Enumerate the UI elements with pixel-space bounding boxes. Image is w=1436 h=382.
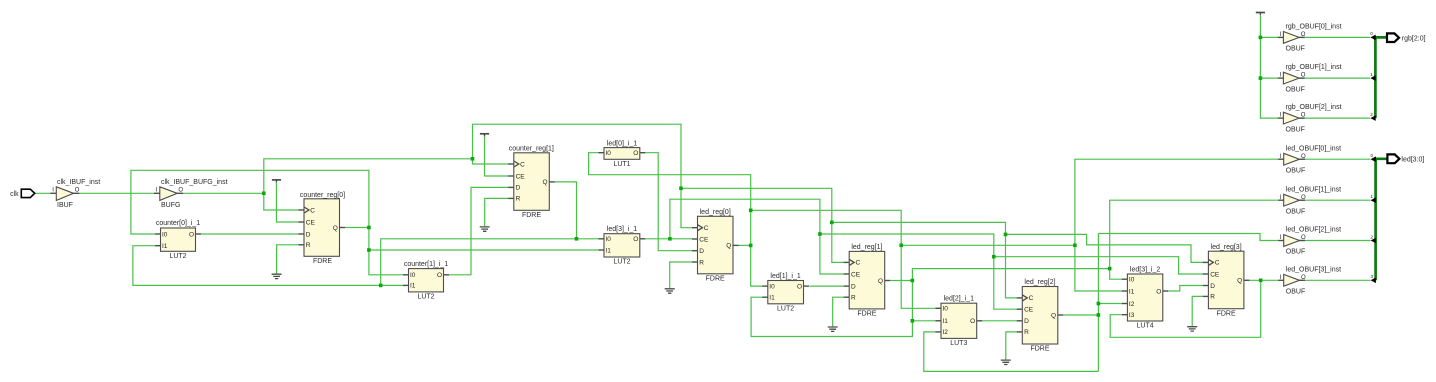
junction ce net a xyxy=(668,237,672,241)
svg-text:CE: CE xyxy=(851,271,861,278)
svg-text:O: O xyxy=(1301,113,1306,119)
svg-text:I0: I0 xyxy=(410,272,416,279)
ground counter_reg[1] xyxy=(480,227,490,231)
wire led_reg[2].Q vertical xyxy=(1097,234,1099,372)
wire counter_reg[0].R to ground xyxy=(277,245,299,274)
svg-text:O: O xyxy=(437,272,442,279)
wire led_reg[2].R to ground xyxy=(1006,332,1018,360)
svg-text:O: O xyxy=(1301,235,1306,241)
svg-text:D: D xyxy=(306,231,311,238)
wire led_OBUF[0].O to bus xyxy=(1299,158,1370,160)
junction counter_reg[1].Q a xyxy=(575,237,579,241)
wire led_OBUF[3].O to bus xyxy=(1299,279,1370,281)
svg-text:LUT2: LUT2 xyxy=(613,259,630,266)
junction clock x831 xyxy=(830,221,834,225)
wire counter_reg[0].Q to led[3]_i_1.I1 xyxy=(369,249,599,251)
wire IBUF.O to BUFG.I xyxy=(79,192,155,194)
flop counter_reg[0] FDRE xyxy=(299,192,346,265)
wire led[3]_i_1.O to led_reg[0].CE xyxy=(645,238,692,240)
svg-text:CE: CE xyxy=(699,236,709,243)
svg-text:D: D xyxy=(516,185,521,192)
wire clock to led_reg[2].C xyxy=(1006,234,1018,298)
wire clock to led_reg[1].C xyxy=(832,222,844,262)
bus tap rgb1 xyxy=(1370,75,1375,81)
svg-text:OBUF: OBUF xyxy=(1286,289,1305,296)
ground led_reg[2] xyxy=(1001,360,1011,364)
svg-text:counter[1]_i_1: counter[1]_i_1 xyxy=(404,261,448,268)
svg-text:FDRE: FDRE xyxy=(857,311,876,318)
svg-text:O: O xyxy=(1301,73,1306,79)
svg-text:O: O xyxy=(633,236,638,243)
junction led_reg[1].Q a xyxy=(911,279,915,283)
svg-text:rgb_OBUF[0]_inst: rgb_OBUF[0]_inst xyxy=(1286,24,1342,31)
svg-text:led[3:0]: led[3:0] xyxy=(1401,157,1424,164)
lut led[2]_i_1 LUT3 xyxy=(936,296,983,347)
lut led[0]_i_1 LUT1 xyxy=(599,140,646,168)
svg-text:CE: CE xyxy=(516,173,526,180)
buffer rgb_OBUF[2]_inst OBUF xyxy=(1278,104,1342,133)
wire led_OBUF[2].O to bus xyxy=(1299,240,1370,242)
svg-text:C: C xyxy=(1215,260,1220,267)
buffer U-BUFG clk_IBUF_BUFG_inst xyxy=(154,179,228,209)
svg-text:I0: I0 xyxy=(162,231,168,238)
svg-text:D: D xyxy=(1024,318,1029,325)
svg-text:Q: Q xyxy=(726,243,731,250)
flop counter_reg[1] FDRE xyxy=(508,146,555,219)
svg-text:clk_IBUF_BUFG_inst: clk_IBUF_BUFG_inst xyxy=(161,179,228,186)
svg-text:C: C xyxy=(520,161,525,168)
port clk xyxy=(10,189,35,198)
wire counter_reg[1].Q left rail xyxy=(381,239,577,286)
wire counter_reg[1].Q down to y238.8 xyxy=(555,182,577,239)
svg-text:led[3]_i_1: led[3]_i_1 xyxy=(607,226,637,233)
wire clock right to x1005 xyxy=(832,222,1006,234)
bus tap led0 xyxy=(1371,156,1376,162)
bus led[3:0] xyxy=(1376,159,1388,280)
svg-text:counter_reg[1]: counter_reg[1] xyxy=(509,146,554,153)
wire counter_reg[1].R to ground xyxy=(485,198,509,226)
svg-text:FDRE: FDRE xyxy=(522,212,541,219)
svg-text:O: O xyxy=(633,150,638,157)
wire BUFG.O to clock junction xyxy=(183,192,264,194)
wire ce net right to x993 xyxy=(820,234,994,257)
buffer rgb_OBUF[1]_inst OBUF xyxy=(1278,64,1342,93)
svg-text:FDRE: FDRE xyxy=(313,258,332,265)
svg-text:led_OBUF[2]_inst: led_OBUF[2]_inst xyxy=(1286,227,1341,234)
junction vcc rgb1 xyxy=(1259,76,1263,80)
svg-text:FDRE: FDRE xyxy=(706,275,725,282)
svg-text:CE: CE xyxy=(1024,307,1034,314)
wire led_reg[0].Q to led[3]_i_2.I1 xyxy=(1075,245,1123,291)
bus tap rgb2 xyxy=(1370,115,1375,121)
wire counter_reg[0].Q feedback to counter[0]_i_1.I0 xyxy=(131,170,369,234)
svg-text:R: R xyxy=(516,196,521,203)
bus rgb[2:0] xyxy=(1375,37,1386,118)
svg-text:O: O xyxy=(189,231,194,238)
svg-text:I2: I2 xyxy=(943,329,949,336)
junction counter_reg[1].Q b xyxy=(379,284,383,288)
wire counter_reg[0].Q to junction xyxy=(345,227,369,229)
wire led_reg[1].Q to junction xyxy=(890,280,912,282)
svg-text:Q: Q xyxy=(878,278,883,285)
svg-text:LUT3: LUT3 xyxy=(950,340,967,347)
svg-text:led[3]_i_2: led[3]_i_2 xyxy=(1130,266,1160,273)
wire led[1]_i_1.O to led_reg[1].D xyxy=(810,285,845,287)
svg-text:O: O xyxy=(797,283,802,290)
wire led_reg[3].Q to led_OBUF[3].I xyxy=(1249,279,1278,281)
svg-text:OBUF: OBUF xyxy=(1286,126,1305,133)
svg-text:led[2]_i_1: led[2]_i_1 xyxy=(944,296,974,303)
wire counter_reg[0].Q to counter[1]_i_1.I0 xyxy=(369,250,404,275)
svg-text:IBUF: IBUF xyxy=(57,202,73,209)
svg-text:I1: I1 xyxy=(943,318,949,325)
wire led[0]_i_1.O to led_reg[0].D xyxy=(645,153,692,251)
svg-text:O: O xyxy=(1301,195,1306,201)
junction led_reg[0].Q c xyxy=(899,244,903,248)
ground counter_reg[0] xyxy=(272,274,282,278)
junction led_reg[3].Q xyxy=(1259,279,1263,283)
svg-text:C: C xyxy=(310,207,315,214)
svg-text:D: D xyxy=(699,248,704,255)
svg-text:OBUF: OBUF xyxy=(1286,167,1305,174)
junction ce net b xyxy=(818,232,822,236)
junction led_reg[2].Q a xyxy=(1097,302,1101,306)
wire clock up and right to x472 xyxy=(264,159,473,194)
svg-text:Q: Q xyxy=(333,225,338,232)
wire counter[0]_i_1.I1 loop xyxy=(133,246,404,286)
junction led_reg[0].Q a xyxy=(749,244,753,248)
wire vcc rail rgb obufs xyxy=(1260,14,1278,118)
wire led_reg[0].Q to led[1]_i_1.I0 xyxy=(751,245,763,286)
junction clock x472 xyxy=(471,157,475,161)
svg-text:C: C xyxy=(1029,295,1034,302)
junction counter_reg[0].Q b xyxy=(367,248,371,252)
svg-text:OBUF: OBUF xyxy=(1286,208,1305,215)
svg-text:OBUF: OBUF xyxy=(1286,86,1305,93)
wire clock right to x831 down xyxy=(681,188,832,222)
wire led_reg[0].Q to led_OBUF[0].I xyxy=(1075,159,1278,245)
svg-text:R: R xyxy=(851,295,856,302)
wire clk port to IBUF xyxy=(35,192,52,194)
bus tap led1 xyxy=(1371,197,1376,203)
power vcc counter_reg[0] xyxy=(272,180,281,182)
flop led_reg[2] FDRE xyxy=(1017,279,1064,352)
svg-text:led_reg[3]: led_reg[3] xyxy=(1211,244,1242,251)
buffer led_OBUF[2]_inst OBUF xyxy=(1278,227,1341,256)
buffer U-IBUF clk_IBUF_inst xyxy=(51,179,101,209)
svg-text:FDRE: FDRE xyxy=(1217,310,1236,317)
svg-text:O: O xyxy=(1301,32,1306,38)
svg-text:D: D xyxy=(1210,283,1215,290)
svg-text:I0: I0 xyxy=(769,283,775,290)
flop led_reg[0] FDRE xyxy=(692,209,739,282)
svg-text:I0: I0 xyxy=(943,306,949,313)
junction ce net c xyxy=(992,255,996,259)
wire rgb_OBUF[2].O to bus xyxy=(1299,117,1370,119)
wire clock to led_reg[0].C xyxy=(681,188,693,227)
svg-text:clk_IBUF_inst: clk_IBUF_inst xyxy=(57,179,100,186)
svg-text:I1: I1 xyxy=(162,243,168,250)
junction led_reg[1].Q b xyxy=(1108,267,1112,271)
lut counter[1]_i_1 LUT2 xyxy=(403,261,449,301)
wire counter[0]_i_1.O to counter_reg[0].D xyxy=(201,233,299,235)
svg-text:CE: CE xyxy=(306,219,316,226)
wire counter_reg[0].Q down xyxy=(368,228,370,251)
svg-text:R: R xyxy=(1210,294,1215,301)
wire led_reg[3].R to ground xyxy=(1192,296,1203,326)
svg-text:rgb[2:0]: rgb[2:0] xyxy=(1402,35,1426,42)
wire led_reg[0].Q up rail right xyxy=(751,210,902,245)
junction led_reg[0].Q d xyxy=(1073,244,1077,248)
svg-text:D: D xyxy=(851,283,856,290)
wire counter[1]_i_1.O to counter_reg[1].D xyxy=(449,187,509,274)
svg-text:I1: I1 xyxy=(769,295,775,302)
svg-text:I1: I1 xyxy=(606,247,612,254)
wire led_reg[1].Q to led[2]_i_1.I1 xyxy=(912,320,936,322)
svg-text:I0: I0 xyxy=(1129,277,1135,284)
power vcc counter_reg[1] xyxy=(480,134,489,136)
junction clock at BUFG output xyxy=(262,192,266,196)
ground led_reg[3] xyxy=(1187,327,1197,331)
wire clock to led_reg[3].C xyxy=(1006,234,1204,262)
svg-text:led_OBUF[3]_inst: led_OBUF[3]_inst xyxy=(1286,266,1341,273)
svg-text:counter_reg[0]: counter_reg[0] xyxy=(300,192,345,199)
lut led[1]_i_1 LUT2 xyxy=(762,273,809,313)
wire led[3]_i_2.O to led_reg[3].D xyxy=(1168,286,1203,292)
junction led_reg[1].Q c xyxy=(911,319,915,323)
buffer led_OBUF[0]_inst OBUF xyxy=(1278,145,1341,174)
svg-text:Q: Q xyxy=(1237,278,1242,285)
wire counter_reg[1].Q to led[3]_i_1.I0 xyxy=(577,238,599,240)
svg-text:I2: I2 xyxy=(1129,301,1135,308)
svg-text:rgb_OBUF[2]_inst: rgb_OBUF[2]_inst xyxy=(1286,104,1342,111)
svg-text:clk: clk xyxy=(10,191,19,198)
svg-text:R: R xyxy=(699,259,704,266)
wire clock down to counter_reg[0].C xyxy=(264,193,299,210)
wire vcc to rgb_OBUF[1].I xyxy=(1260,77,1278,79)
svg-text:led_reg[2]: led_reg[2] xyxy=(1024,279,1055,286)
svg-text:Q: Q xyxy=(1051,312,1056,319)
wire ce net to led_reg[1].CE xyxy=(820,234,844,274)
power vcc rgb obufs xyxy=(1256,13,1265,15)
ground led_reg[0] xyxy=(665,289,675,293)
wire vcc to counter_reg[1].CE xyxy=(485,136,509,176)
svg-text:I0: I0 xyxy=(606,150,612,157)
wire led_reg[2].Q to junction xyxy=(1063,314,1098,316)
wire led_reg[1].Q to led_OBUF[1].I xyxy=(1110,200,1279,268)
svg-text:OBUF: OBUF xyxy=(1286,46,1305,53)
bus tap led3 xyxy=(1371,278,1376,284)
wire led_reg[1].Q up right rail xyxy=(912,269,1109,281)
wire led_reg[0].Q right to v1075 xyxy=(901,244,1075,246)
junction counter_reg[0].Q a xyxy=(367,226,371,230)
svg-text:BUFG: BUFG xyxy=(161,202,180,209)
wire led_reg[2].Q to led[3]_i_2.I2 xyxy=(1098,303,1122,305)
svg-text:led[1]_i_1: led[1]_i_1 xyxy=(770,273,800,280)
svg-text:I1: I1 xyxy=(1129,288,1135,295)
svg-text:OBUF: OBUF xyxy=(1286,249,1305,256)
junction vcc rgb0 xyxy=(1259,36,1263,40)
svg-text:CE: CE xyxy=(1210,271,1220,278)
junction led_reg[0].Q b xyxy=(749,209,753,213)
wire rgb_OBUF[0].O to bus xyxy=(1299,36,1370,38)
svg-text:led_OBUF[0]_inst: led_OBUF[0]_inst xyxy=(1286,145,1341,152)
wire led_OBUF[1].O to bus xyxy=(1299,199,1370,201)
junction led_reg[2].Q b xyxy=(1097,313,1101,317)
wire ce net up and right xyxy=(670,199,820,239)
svg-text:Q: Q xyxy=(543,179,548,186)
svg-text:LUT1: LUT1 xyxy=(613,161,630,168)
wire led[2]_i_1.O to led_reg[2].D xyxy=(982,320,1017,322)
wire led_reg[2].Q to led_OBUF[2].I xyxy=(1098,234,1278,241)
wire clock top rail to x681 xyxy=(473,124,682,188)
port rgb[2:0] xyxy=(1387,33,1426,42)
svg-text:LUT2: LUT2 xyxy=(169,253,186,260)
flop led_reg[1] FDRE xyxy=(844,244,891,317)
wire led_reg[0].Q to led[2]_i_1.I0 xyxy=(901,245,936,308)
svg-text:led[0]_i_1: led[0]_i_1 xyxy=(607,140,637,147)
svg-text:O: O xyxy=(970,318,975,325)
buffer led_OBUF[1]_inst OBUF xyxy=(1278,186,1341,215)
svg-text:I1: I1 xyxy=(410,283,416,290)
svg-text:FDRE: FDRE xyxy=(1030,346,1049,353)
wire led_reg[1].Q to led[3]_i_2.I0 xyxy=(1110,269,1123,280)
buffer led_OBUF[3]_inst OBUF xyxy=(1278,266,1341,295)
bus tap rgb0 xyxy=(1370,35,1375,41)
wire ce net to led_reg[3].CE xyxy=(994,257,1204,274)
svg-text:counter[0]_i_1: counter[0]_i_1 xyxy=(156,220,200,227)
wire led_reg[2].Q to led[2]_i_1.I2 xyxy=(924,332,1099,372)
wire led_reg[0].Q to junction xyxy=(739,244,751,246)
buffer rgb_OBUF[0]_inst OBUF xyxy=(1278,24,1342,53)
svg-text:C: C xyxy=(704,225,709,232)
port led[3:0] xyxy=(1387,154,1424,163)
ground led_reg[1] xyxy=(828,327,838,331)
wire vcc to counter_reg[0].CE xyxy=(276,182,299,222)
wire led_reg[3].Q loop to led[3]_i_2.I3 xyxy=(1110,280,1261,337)
svg-text:R: R xyxy=(1024,329,1029,336)
svg-text:C: C xyxy=(856,260,861,267)
svg-text:I0: I0 xyxy=(606,236,612,243)
svg-text:led_OBUF[1]_inst: led_OBUF[1]_inst xyxy=(1286,186,1341,193)
junction clock x681 xyxy=(679,187,683,191)
svg-text:I3: I3 xyxy=(1129,312,1135,319)
svg-text:O: O xyxy=(1156,288,1161,295)
svg-text:R: R xyxy=(306,242,311,249)
wire led[0]_i_1.I0 loop xyxy=(589,153,751,211)
svg-text:LUT4: LUT4 xyxy=(1137,323,1154,330)
wire led_reg[0].R to ground xyxy=(670,262,693,288)
bus tap led2 xyxy=(1371,238,1376,244)
svg-text:O: O xyxy=(1301,154,1306,160)
svg-text:O: O xyxy=(75,188,80,194)
wire ce net to led_reg[2].CE xyxy=(994,257,1018,310)
svg-text:LUT2: LUT2 xyxy=(417,294,434,301)
svg-text:rgb_OBUF[1]_inst: rgb_OBUF[1]_inst xyxy=(1286,64,1342,71)
svg-text:led_reg[0]: led_reg[0] xyxy=(700,209,731,216)
svg-text:led_reg[1]: led_reg[1] xyxy=(851,244,882,251)
lut counter[0]_i_1 LUT2 xyxy=(155,220,201,260)
lut led[3]_i_2 LUT4 xyxy=(1122,266,1168,329)
wire led_reg[1].Q loop to led[1]_i_1.I1 xyxy=(751,297,912,336)
wire rgb_OBUF[1].O to bus xyxy=(1299,77,1370,79)
svg-text:LUT2: LUT2 xyxy=(777,305,794,312)
wire vcc to rgb_OBUF[0].I xyxy=(1260,36,1278,38)
wire clock to counter_reg[1].C xyxy=(473,159,509,164)
flop led_reg[3] FDRE xyxy=(1203,244,1250,317)
wire led_reg[1].Q down xyxy=(911,281,913,321)
wire led_reg[1].R to ground xyxy=(833,297,845,326)
lut led[3]_i_1 LUT2 xyxy=(599,226,646,266)
junction clock x1005 xyxy=(1004,233,1008,237)
svg-text:O: O xyxy=(1301,275,1306,281)
svg-text:O: O xyxy=(178,188,183,194)
